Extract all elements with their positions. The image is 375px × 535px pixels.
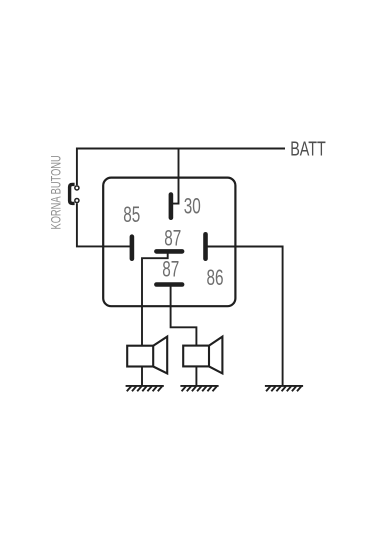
svg-text:BATT: BATT [290, 137, 326, 160]
svg-text:87: 87 [162, 258, 179, 283]
wire: BATT line down to relay pin 30 [173, 149, 179, 204]
wire: right horn to ground [195, 366, 197, 385]
label KORNA BUTONU [50, 155, 64, 229]
label 30 [184, 195, 201, 220]
switch S1 horn button (KORNA BUTONU) [70, 184, 79, 203]
wire: horn button bottom terminal down to pin 85 feed [77, 203, 132, 246]
wire: relay pin 86 to right ground [206, 247, 283, 386]
svg-text:85: 85 [123, 203, 140, 228]
horn H2 (right) [183, 337, 222, 374]
svg-text:KORNA BUTONU: KORNA BUTONU [50, 155, 64, 229]
label 85 [123, 203, 140, 228]
relay K1 body [103, 178, 235, 307]
wire: drop from BATT line to horn button top terminal [76, 148, 78, 186]
label BATT [290, 137, 326, 160]
ground (left horn) [126, 386, 164, 391]
label 86 [206, 266, 223, 291]
pin 87 lower blade [156, 282, 182, 287]
label 87 upper [164, 227, 181, 252]
svg-text:86: 86 [206, 266, 223, 291]
svg-text:87: 87 [164, 227, 181, 252]
wire: relay pin 87 (upper) to left horn [142, 253, 168, 345]
pin 86 blade [203, 234, 208, 258]
pin 85 blade [130, 237, 135, 259]
pin 30 blade [169, 195, 174, 218]
wire: left horn to ground [141, 367, 143, 386]
label 87 lower [162, 258, 179, 283]
horn H1 (left) [127, 337, 167, 374]
ground (pin 86 / chassis) [265, 386, 303, 391]
ground (right horn) [180, 386, 218, 391]
pin 87 upper blade [156, 249, 182, 254]
wire: relay pin 87 (lower) to right horn [171, 286, 197, 345]
wire: BATT supply line [76, 148, 285, 150]
svg-text:30: 30 [184, 195, 201, 220]
